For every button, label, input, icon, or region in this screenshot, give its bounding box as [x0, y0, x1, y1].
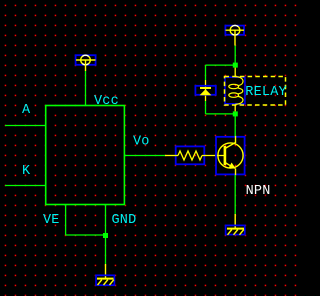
power symbol (top-right): [225, 25, 244, 45]
IC box U1: [46, 106, 125, 205]
wire GND pin: [105, 205, 107, 236]
junction node (bottom): [233, 111, 238, 116]
diode D1 branch wires: [205, 65, 207, 80]
wire junction to diode branch (bottom): [206, 113, 236, 115]
svg-text:GND: GND: [112, 213, 137, 228]
diode D1: [195, 80, 215, 101]
svg-text:Vcc: Vcc: [94, 94, 119, 109]
svg-text:K: K: [22, 164, 31, 179]
wire emitter to ground: [234, 175, 236, 214]
svg-text:Vo: Vo: [133, 135, 150, 150]
wire junction to transistor collector: [234, 116, 236, 136]
wire Vo: [125, 155, 165, 157]
wire VE pin: [66, 205, 106, 236]
wire to ground: [105, 238, 107, 264]
ground (below transistor): [226, 214, 245, 235]
junction node (top): [233, 63, 238, 68]
relay K1: [225, 77, 286, 112]
resistor R1: [165, 146, 225, 164]
svg-text:RELAY: RELAY: [245, 85, 287, 100]
wire power to junction: [234, 46, 236, 66]
junction node (VE/GND): [103, 233, 108, 238]
wire K: [5, 185, 46, 187]
svg-text:A: A: [22, 103, 31, 118]
svg-text:VE: VE: [43, 213, 60, 228]
power symbol VCC (top-left): [76, 55, 96, 71]
transistor Q1 NPN: [216, 136, 245, 175]
wire A: [5, 125, 46, 127]
svg-text:NPN: NPN: [246, 184, 271, 199]
wire Vcc vertical: [85, 71, 87, 106]
ground (bottom-left): [96, 264, 114, 285]
wire junction to diode branch (top): [206, 64, 236, 66]
coil pin (top): [234, 68, 236, 77]
